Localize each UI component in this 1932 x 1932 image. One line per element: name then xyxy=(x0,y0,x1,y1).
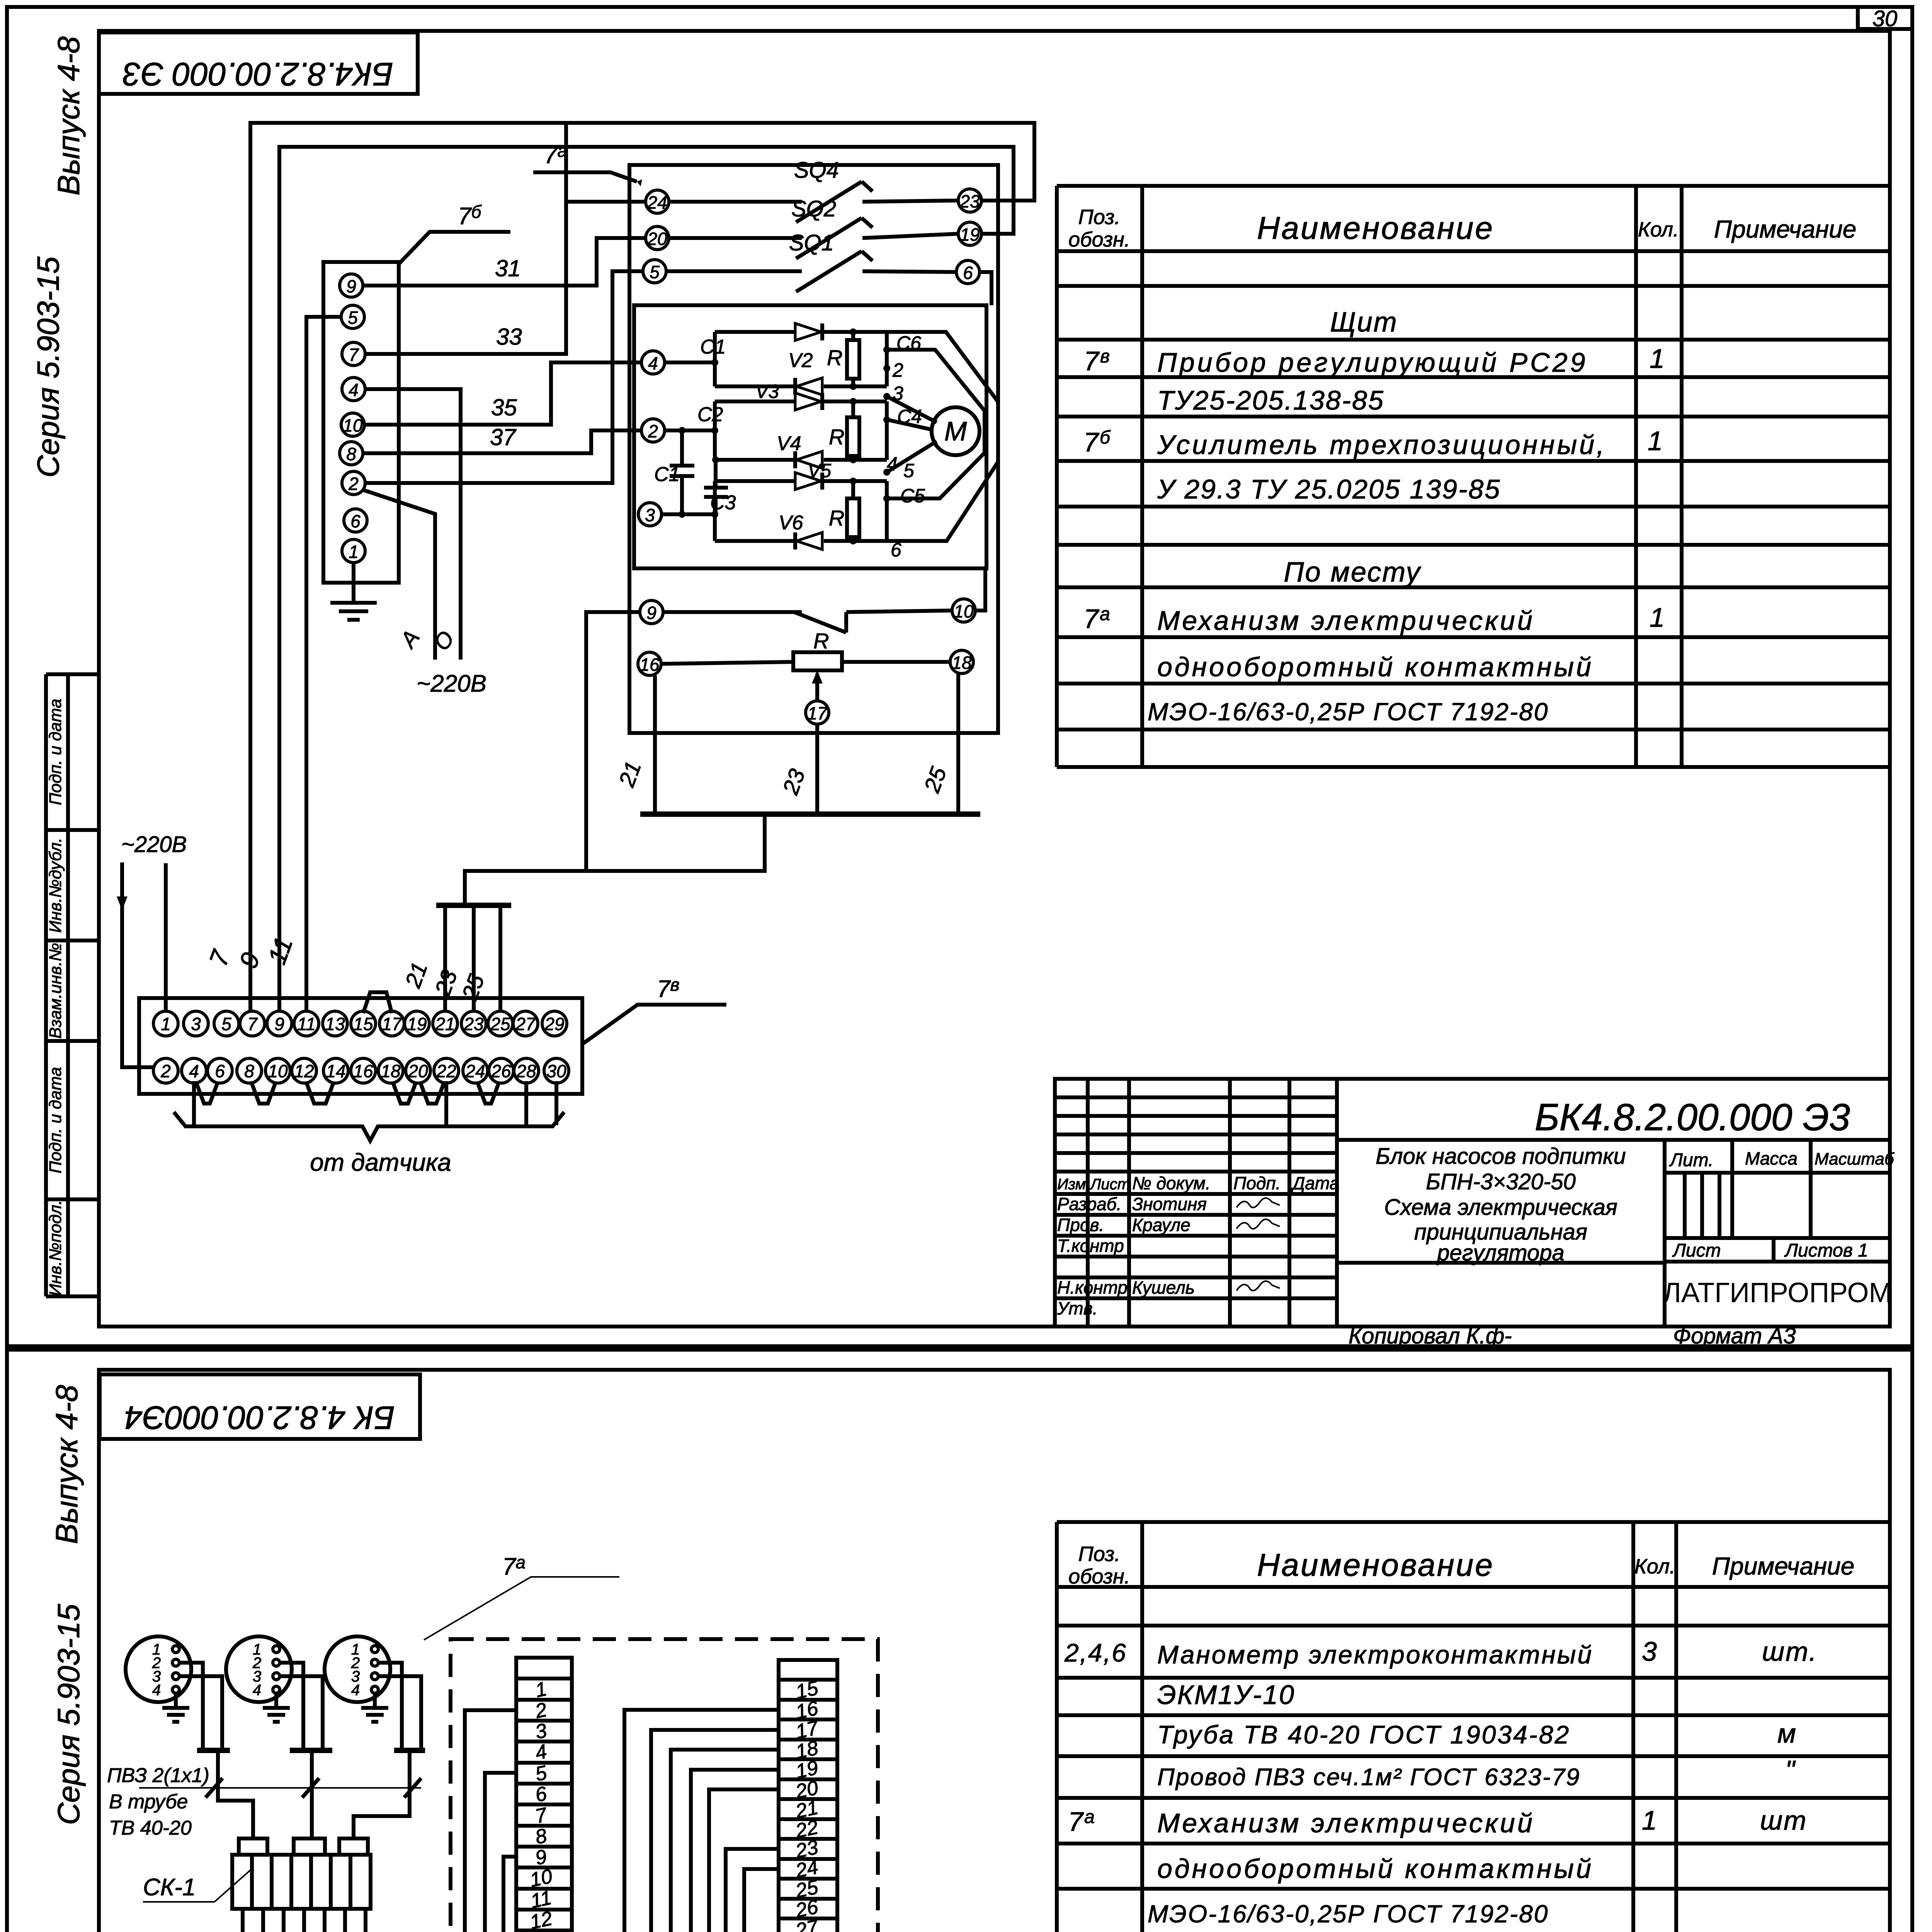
svg-text:1: 1 xyxy=(349,542,359,562)
svg-text:SQ2: SQ2 xyxy=(791,196,836,221)
sheet 2 inner frame xyxy=(99,1370,1890,1932)
7b terminal 6 xyxy=(344,509,367,532)
ground connector XP2 xyxy=(263,1693,290,1722)
svg-text:~220В: ~220В xyxy=(417,670,486,697)
7v terminal 11 xyxy=(294,1011,319,1036)
diode V1 xyxy=(795,323,821,340)
svg-text:шт.: шт. xyxy=(1762,1636,1818,1667)
7b terminal 9 xyxy=(340,274,363,297)
parts table sheet1 xyxy=(1057,186,1890,767)
jumper 15-17 xyxy=(363,992,392,1013)
svg-text:Копировал К.ф-: Копировал К.ф- xyxy=(1349,1323,1512,1349)
7v terminal 22 xyxy=(434,1058,459,1083)
svg-text:Лит.: Лит. xyxy=(1669,1150,1713,1170)
7v terminal 14 xyxy=(323,1058,348,1083)
svg-text:35: 35 xyxy=(491,395,517,420)
left stamp column labels xyxy=(46,699,65,1296)
svg-text:29: 29 xyxy=(544,1014,564,1034)
svg-text:12: 12 xyxy=(528,1907,554,1932)
wire 220v neutral to 7v.1 xyxy=(164,863,168,1012)
motor leads xyxy=(887,396,937,422)
7v terminal 1 xyxy=(153,1011,178,1036)
table sheet2 header texts xyxy=(1068,1543,1854,1588)
7a terminal 20 xyxy=(646,226,669,250)
7a terminal 19 xyxy=(958,222,981,245)
svg-text:2: 2 xyxy=(648,421,658,441)
svg-text:БПН-3×320-50: БПН-3×320-50 xyxy=(1426,1169,1576,1194)
svg-text:обозн.: обозн. xyxy=(1068,228,1130,251)
svg-text:от датчика: от датчика xyxy=(310,1148,451,1176)
svg-text:10: 10 xyxy=(268,1061,288,1081)
wire 7b.2 to 7a.5 xyxy=(365,271,643,483)
svg-text:СК-1: СК-1 xyxy=(143,1874,196,1901)
connector XP1 xyxy=(126,1636,191,1702)
svg-text:Блок насосов подпитки: Блок насосов подпитки xyxy=(1376,1144,1626,1169)
7a terminal 16 xyxy=(638,652,661,675)
svg-text:Лист: Лист xyxy=(1672,1240,1721,1261)
svg-text:С1: С1 xyxy=(700,336,726,358)
parts table sheet2 xyxy=(1057,1522,1890,1932)
svg-text:9: 9 xyxy=(274,1014,284,1034)
svg-text:Разраб.: Разраб. xyxy=(1057,1194,1121,1214)
resistor R3 xyxy=(847,498,859,537)
signatures sheet1 xyxy=(1236,1198,1280,1291)
wire 31 (7b.9 to 7a.20) xyxy=(363,238,646,286)
svg-text:V3: V3 xyxy=(755,381,779,402)
junction box CK-1 xyxy=(239,1838,267,1855)
svg-text:МЭО-16/63-0,25Р ГОСТ 7192-8: МЭО-16/63-0,25Р ГОСТ 7192-80 xyxy=(1148,698,1549,726)
amp group 2 rails xyxy=(665,401,887,460)
svg-text:Подп. и дата: Подп. и дата xyxy=(46,1067,65,1173)
svg-text:В трубе: В трубе xyxy=(109,1791,188,1813)
connector 7b pointer xyxy=(399,232,510,264)
wire 37 (7b.8 to 7a.2) xyxy=(363,430,641,453)
wire 7b.5 to 7v.11 xyxy=(306,317,341,1012)
svg-text:Инв.№дубл.: Инв.№дубл. xyxy=(46,838,65,933)
svg-text:1: 1 xyxy=(1650,602,1666,633)
svg-text:Прибор регулирующий РС29: Прибор регулирующий РС29 xyxy=(1157,347,1588,378)
top-left stamp box (inverted doc number) xyxy=(99,32,418,94)
terminal strip 1-14 xyxy=(516,1658,572,1932)
svg-text:ПВЗ 2(1x1): ПВЗ 2(1x1) xyxy=(107,1764,209,1787)
svg-text:Примечание: Примечание xyxy=(1712,1552,1855,1580)
svg-text:С5: С5 xyxy=(900,485,925,507)
svg-text:С1: С1 xyxy=(654,463,680,486)
wire 7b.4 to O xyxy=(365,389,461,660)
svg-text:Труба ТВ 40-20 ГОСТ 19034-82: Труба ТВ 40-20 ГОСТ 19034-82 xyxy=(1157,1720,1570,1749)
capacitor C1 xyxy=(670,430,694,514)
svg-text:1: 1 xyxy=(161,1014,171,1034)
svg-text:Механизм электрический: Механизм электрический xyxy=(1157,605,1535,636)
7v terminal 16 xyxy=(351,1058,376,1083)
wire 10 to inner box corner xyxy=(975,568,985,611)
7v terminal 12 xyxy=(292,1058,316,1083)
svg-text:V5: V5 xyxy=(808,460,831,481)
ground connector XP3 xyxy=(361,1693,388,1722)
svg-text:16: 16 xyxy=(639,655,660,675)
svg-text:Формат А3: Формат А3 xyxy=(1673,1323,1796,1349)
wires left strip rows 2 5 9 xyxy=(465,1710,516,1932)
svg-text:24: 24 xyxy=(465,1061,485,1081)
7v terminal 8 xyxy=(237,1058,262,1083)
svg-text:Кушель: Кушель xyxy=(1132,1277,1195,1298)
svg-text:30: 30 xyxy=(1872,6,1898,31)
switch SQ4 xyxy=(669,182,958,222)
wire 7b.2 to A xyxy=(363,490,435,660)
page number box 30 xyxy=(1858,7,1912,29)
motor M xyxy=(932,407,980,455)
svg-text:2: 2 xyxy=(160,1061,171,1081)
svg-text:37: 37 xyxy=(490,424,517,450)
7b terminal 4 xyxy=(342,378,365,401)
svg-text:Дата: Дата xyxy=(1291,1173,1339,1193)
svg-text:6: 6 xyxy=(963,263,973,283)
7v terminal 6 xyxy=(207,1058,232,1083)
wire: top bus 1 (to terminal 24 chain) xyxy=(250,123,1034,1012)
svg-text:13: 13 xyxy=(325,1014,345,1034)
title block sheet1 xyxy=(1055,1079,1890,1327)
svg-text:10: 10 xyxy=(528,1865,554,1892)
7v terminal 9 xyxy=(267,1011,292,1036)
sheet 1 outer border xyxy=(7,7,1912,1346)
node labels C6 2 3 C4 4 5 C5 6 xyxy=(887,332,925,561)
7b terminal 10 xyxy=(341,413,364,436)
svg-text:Наименование: Наименование xyxy=(1257,1548,1494,1583)
resistor R2 xyxy=(847,417,859,456)
7v terminal 2 xyxy=(153,1058,178,1083)
svg-text:14: 14 xyxy=(326,1061,345,1081)
svg-text:30: 30 xyxy=(546,1061,566,1081)
7v terminal 21 xyxy=(433,1011,457,1036)
svg-text:28: 28 xyxy=(516,1061,536,1081)
svg-text:17: 17 xyxy=(807,703,828,723)
svg-text:R: R xyxy=(813,629,829,653)
svg-text:БК4.8.2.00.000 Э3: БК4.8.2.00.000 Э3 xyxy=(123,56,393,92)
svg-text:БК 4.8.2.00.000Э4: БК 4.8.2.00.000Э4 xyxy=(124,1400,395,1436)
svg-text:21: 21 xyxy=(435,1014,455,1034)
svg-text:Кол.: Кол. xyxy=(1638,218,1679,241)
wires buses to CK-1 xyxy=(218,1750,253,1838)
svg-text:1: 1 xyxy=(1648,426,1664,456)
svg-text:Кол.: Кол. xyxy=(1634,1555,1675,1578)
7v terminal 24 xyxy=(463,1058,488,1083)
box 7a xyxy=(629,165,998,733)
svg-text:Серия 5.903-15: Серия 5.903-15 xyxy=(51,1604,86,1825)
table sheet2 rows xyxy=(1064,1636,1818,1932)
svg-text:25: 25 xyxy=(490,1014,510,1034)
7a terminal 5 xyxy=(643,260,666,283)
svg-text:11: 11 xyxy=(297,1014,316,1034)
row 9-10 wire with switch xyxy=(663,611,952,633)
7v terminal 15 xyxy=(351,1011,376,1036)
svg-text:6: 6 xyxy=(215,1061,225,1081)
svg-text:5: 5 xyxy=(348,308,358,328)
amp group 1 rails xyxy=(665,332,887,386)
table sheet1 rows xyxy=(1083,307,1666,726)
svg-text:Схема электрическая: Схема электрическая xyxy=(1384,1195,1617,1220)
svg-text:SQ4: SQ4 xyxy=(794,158,839,183)
dashed box 7a sheet2 xyxy=(451,1639,878,1932)
svg-text:Утв.: Утв. xyxy=(1057,1298,1098,1318)
svg-text:Пров.: Пров. xyxy=(1057,1215,1104,1235)
svg-text:20: 20 xyxy=(408,1061,428,1081)
svg-text:26: 26 xyxy=(491,1061,511,1081)
7a terminal 18 xyxy=(950,650,973,673)
7v terminal 18 xyxy=(378,1058,403,1083)
svg-text:5: 5 xyxy=(221,1014,231,1034)
ground connector XP1 xyxy=(162,1693,189,1722)
drops to sensor brace xyxy=(192,1081,196,1125)
7a terminal 2 xyxy=(641,419,665,442)
7b terminal 7 xyxy=(342,342,365,366)
7b terminal 8 xyxy=(340,442,363,465)
svg-text:Н.контр: Н.контр xyxy=(1057,1277,1128,1298)
svg-text:Масса: Масса xyxy=(1745,1148,1798,1168)
7a terminal 17 xyxy=(806,701,829,724)
motor phase wiring inner wrap xyxy=(887,350,985,498)
svg-text:ТУ25-205.138-85: ТУ25-205.138-85 xyxy=(1157,385,1384,415)
7v terminal 13 xyxy=(323,1011,347,1036)
sheet 2 outer border xyxy=(7,1350,1912,1932)
svg-text:С2: С2 xyxy=(697,403,723,426)
7a terminal 4 xyxy=(641,351,665,374)
wire 220v phase with arrow xyxy=(122,862,155,1067)
svg-text:Знотиня: Знотиня xyxy=(1132,1194,1207,1214)
svg-text:V2: V2 xyxy=(788,349,813,372)
7a terminal 6r xyxy=(956,260,980,284)
svg-text:23: 23 xyxy=(959,191,980,211)
7v terminal 19 xyxy=(405,1011,429,1036)
svg-text:2,4,6: 2,4,6 xyxy=(1064,1638,1127,1667)
7v terminal 30 xyxy=(544,1058,569,1083)
svg-text:Инв.№подл.: Инв.№подл. xyxy=(46,1200,65,1296)
jumpers even row xyxy=(196,1083,218,1104)
switch SQ1 xyxy=(666,251,956,292)
brace ot datchika xyxy=(174,1112,564,1141)
svg-text:22: 22 xyxy=(436,1061,456,1081)
svg-text:8: 8 xyxy=(244,1061,254,1081)
svg-text:16: 16 xyxy=(353,1061,373,1081)
svg-text:шт: шт xyxy=(1760,1805,1807,1835)
svg-text:ЛАТГИПРОПРОМ: ЛАТГИПРОПРОМ xyxy=(1663,1277,1892,1308)
7v terminal 10 xyxy=(265,1058,290,1083)
terminal strip 15-28 xyxy=(779,1660,837,1932)
svg-text:2: 2 xyxy=(892,359,903,381)
title block sheet1 texts xyxy=(1057,1173,1339,1318)
ground under 7b xyxy=(330,563,377,620)
wires XP2 to bus xyxy=(280,1663,303,1749)
cable run line xyxy=(139,1787,421,1789)
wire 9 left drop xyxy=(586,612,640,871)
svg-text:МЭО-16/63-0,25Р ГОСТ 7192-: МЭО-16/63-0,25Р ГОСТ 7192-80 xyxy=(1148,1900,1549,1928)
7v terminal 3 xyxy=(184,1011,208,1036)
7v terminal 7 xyxy=(240,1011,265,1036)
svg-text:4: 4 xyxy=(253,1682,261,1699)
svg-text:м: м xyxy=(1777,1718,1797,1748)
svg-text:15: 15 xyxy=(353,1014,373,1034)
motor phase wiring outer wrap xyxy=(887,332,998,541)
connector XP2 xyxy=(226,1636,292,1702)
7b terminal 2 xyxy=(342,471,365,495)
svg-text:№ докум.: № докум. xyxy=(1132,1173,1211,1193)
drop wires 21 23 25 xyxy=(653,675,657,814)
arrow 17 to pot xyxy=(815,673,819,701)
svg-text:3: 3 xyxy=(1642,1636,1658,1667)
diode V4 xyxy=(796,451,822,468)
7v terminal 23 xyxy=(461,1011,486,1036)
svg-text:Листов 1: Листов 1 xyxy=(1784,1240,1868,1261)
resistor R1 xyxy=(847,340,859,379)
wire 33 (7b.7 to 7a.24) xyxy=(365,123,566,354)
svg-text:Изм: Изм xyxy=(1057,1176,1086,1193)
bus under 7a xyxy=(640,811,980,817)
svg-text:18: 18 xyxy=(381,1061,401,1081)
svg-text:однооборотный контактный: однооборотный контактный xyxy=(1157,1854,1594,1884)
svg-text:R: R xyxy=(827,345,842,370)
svg-text:Усилитель трехпозиционный,: Усилитель трехпозиционный, xyxy=(1157,430,1606,460)
svg-text:R: R xyxy=(829,425,844,449)
svg-text:Примечание: Примечание xyxy=(1714,215,1857,243)
7v terminal 28 xyxy=(514,1058,539,1083)
connector 7b box xyxy=(323,262,399,583)
svg-text:18: 18 xyxy=(952,653,972,673)
svg-text:~220В: ~220В xyxy=(121,832,187,857)
svg-text:Наименование: Наименование xyxy=(1257,211,1494,246)
7v terminal 27 xyxy=(513,1011,538,1036)
svg-text:4: 4 xyxy=(351,1682,360,1699)
svg-text:SQ1: SQ1 xyxy=(789,230,834,255)
wire: top bus 2 (to terminal 19 chain) xyxy=(279,147,1014,1012)
svg-text:Поз.: Поз. xyxy=(1078,206,1121,229)
svg-text:однооборотный контактный: однооборотный контактный xyxy=(1157,652,1594,682)
svg-text:1: 1 xyxy=(1650,344,1666,374)
diode V3 xyxy=(795,393,821,410)
svg-text:23: 23 xyxy=(463,1014,484,1034)
svg-text:": " xyxy=(1785,1755,1796,1785)
top-left stamp box sheet2 (inverted doc number) xyxy=(100,1374,420,1439)
7b terminal 1 xyxy=(342,539,365,563)
svg-text:М: М xyxy=(944,416,967,446)
svg-text:Взам.инв.№: Взам.инв.№ xyxy=(46,943,65,1039)
switch SQ2 xyxy=(669,218,958,259)
svg-text:ЭКМ1У-10: ЭКМ1У-10 xyxy=(1157,1680,1295,1710)
svg-text:Т.контр: Т.контр xyxy=(1057,1236,1124,1256)
svg-text:Щит: Щит xyxy=(1330,307,1398,338)
wire 6r hook xyxy=(980,272,992,305)
svg-text:Механизм электрический: Механизм электрический xyxy=(1157,1808,1535,1838)
svg-text:4: 4 xyxy=(152,1682,161,1699)
svg-text:12: 12 xyxy=(294,1061,314,1081)
svg-text:9: 9 xyxy=(646,603,656,623)
svg-text:17: 17 xyxy=(382,1014,402,1034)
svg-text:6: 6 xyxy=(350,511,361,531)
svg-text:10: 10 xyxy=(954,601,974,621)
node dots xyxy=(679,328,890,544)
svg-text:7: 7 xyxy=(247,1014,258,1034)
svg-text:Масштаб: Масштаб xyxy=(1815,1150,1895,1168)
7b terminal 5 xyxy=(341,305,364,328)
svg-text:Поз.: Поз. xyxy=(1078,1543,1121,1566)
svg-text:Подп.: Подп. xyxy=(1233,1173,1281,1193)
connector XP3 xyxy=(325,1636,390,1702)
svg-text:4: 4 xyxy=(189,1061,199,1081)
diode V5 xyxy=(795,473,821,490)
svg-text:У 29.3 ТУ 25.0205 139-85: У 29.3 ТУ 25.0205 139-85 xyxy=(1157,474,1501,504)
svg-text:Подп. и дата: Подп. и дата xyxy=(46,699,65,805)
7a terminal 3 xyxy=(638,503,662,526)
7v terminal 20 xyxy=(406,1058,430,1083)
diode V6 xyxy=(796,532,822,549)
svg-text:По месту: По месту xyxy=(1284,557,1421,588)
wire 35 (7b.10 to 7a.4) xyxy=(364,362,641,425)
svg-text:3: 3 xyxy=(645,505,655,525)
svg-text:Лист: Лист xyxy=(1089,1176,1130,1193)
wires XP1 to bus xyxy=(179,1663,203,1749)
svg-text:1: 1 xyxy=(1642,1805,1658,1835)
title block right texts sheet1 xyxy=(1669,1148,1895,1261)
7a terminal 9 xyxy=(640,600,663,624)
diode V2 xyxy=(796,378,822,395)
svg-text:ТВ 40-20: ТВ 40-20 xyxy=(109,1817,192,1839)
svg-text:V6: V6 xyxy=(779,512,803,534)
svg-text:24: 24 xyxy=(647,192,667,213)
svg-text:19: 19 xyxy=(407,1014,427,1034)
7v terminal 29 xyxy=(542,1011,567,1036)
svg-text:19: 19 xyxy=(960,224,980,245)
svg-text:Серия 5.903-15: Серия 5.903-15 xyxy=(31,256,65,478)
svg-text:БК4.8.2.00.000 Э3: БК4.8.2.00.000 Э3 xyxy=(1535,1096,1850,1138)
row 16-18 wire xyxy=(661,662,950,664)
svg-text:7: 7 xyxy=(349,345,359,365)
svg-text:Выпуск 4-8: Выпуск 4-8 xyxy=(49,1385,84,1544)
capacitor C2b xyxy=(704,460,728,514)
7v terminal 4 xyxy=(182,1058,206,1083)
drops to 7v 21 23 25 xyxy=(443,905,447,1012)
svg-text:обозн.: обозн. xyxy=(1068,1565,1130,1588)
left stamp column boxes xyxy=(46,674,99,1296)
7a terminal 24 xyxy=(646,190,669,213)
svg-text:регулятора: регулятора xyxy=(1436,1240,1565,1265)
7a terminal 23 xyxy=(958,189,981,212)
amp group 3 rails xyxy=(662,481,887,541)
svg-text:9: 9 xyxy=(346,276,356,296)
svg-text:31: 31 xyxy=(495,255,521,281)
svg-text:4: 4 xyxy=(648,353,658,373)
wires XP3 to bus xyxy=(378,1663,402,1749)
svg-text:8: 8 xyxy=(346,444,356,464)
svg-text:Выпуск 4-8: Выпуск 4-8 xyxy=(51,36,86,196)
svg-text:33: 33 xyxy=(496,324,522,350)
svg-text:Провод ПВЗ сеч.1м² ГОСТ 6323-: Провод ПВЗ сеч.1м² ГОСТ 6323-79 xyxy=(1157,1764,1580,1791)
title text sheet1 xyxy=(1376,1144,1626,1265)
bar above 7v xyxy=(436,903,511,908)
svg-text:3: 3 xyxy=(191,1014,201,1034)
inner amplifier box xyxy=(634,305,986,568)
svg-text:2: 2 xyxy=(348,474,359,494)
svg-text:20: 20 xyxy=(647,229,667,249)
7v terminal 5 xyxy=(214,1011,239,1036)
7v terminal 25 xyxy=(488,1011,513,1036)
svg-text:Крауле: Крауле xyxy=(1132,1215,1190,1235)
svg-text:4: 4 xyxy=(349,380,359,400)
svg-text:R: R xyxy=(829,506,844,530)
svg-text:V4: V4 xyxy=(777,432,801,455)
table sheet1 header texts xyxy=(1068,206,1856,251)
svg-text:5: 5 xyxy=(650,262,660,282)
step wire to 7v xyxy=(465,814,765,905)
7v pointer xyxy=(583,1005,726,1043)
sheet 1 inner frame xyxy=(99,31,1890,1327)
